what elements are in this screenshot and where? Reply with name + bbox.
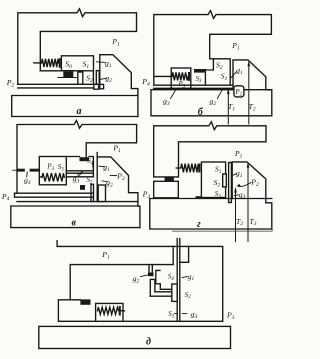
spring S (181, 164, 198, 173)
leader g1 (97, 61, 106, 64)
spring box (39, 157, 66, 185)
spring end plate (59, 58, 61, 68)
ledge line (17, 201, 138, 203)
svg-text:д: д (146, 336, 151, 347)
svg-text:г: г (197, 219, 201, 230)
ledge line (40, 70, 73, 72)
leader g1 (99, 165, 105, 168)
arrow T3 (247, 164, 249, 241)
svg-text:в: в (71, 218, 76, 229)
spring end plate (198, 164, 200, 173)
pin box (98, 185, 105, 202)
leader S3 (175, 313, 177, 315)
leader g1 (231, 72, 237, 78)
svg-text:а: а (77, 106, 82, 117)
leader S1 (92, 163, 93, 168)
bracket P1 body (154, 11, 272, 85)
spring S (42, 173, 64, 181)
top-left stub (56, 241, 58, 247)
spring stub (121, 310, 125, 312)
spring S (42, 59, 59, 67)
spring end plate (188, 72, 190, 81)
leader g3 (234, 194, 238, 197)
leader g2 (102, 180, 108, 183)
spring stub (176, 167, 181, 169)
contact patch (black) (194, 69, 206, 73)
leader g2 (217, 90, 222, 98)
hanging pin (149, 265, 152, 273)
leader g3 (78, 173, 82, 176)
leader g1 (233, 174, 237, 176)
bottom rod (15, 193, 93, 197)
spring S (172, 72, 188, 80)
leader P2 (110, 174, 117, 176)
bar pin left (91, 184, 94, 201)
bracket P1 body (17, 121, 137, 194)
base plate (12, 96, 138, 117)
spring housing (96, 303, 123, 321)
pin flange (dark) (148, 273, 154, 277)
piston (172, 284, 177, 301)
long divider line (96, 153, 98, 202)
rod to piston (150, 292, 172, 296)
slide block (61, 56, 93, 71)
pin right (229, 163, 232, 203)
rod (154, 85, 233, 88)
P2 box (234, 86, 244, 97)
leader g4 (26, 172, 29, 177)
rod foot (94, 84, 99, 89)
stop notch (100, 84, 104, 88)
base plate (11, 206, 140, 228)
leader g2 (101, 78, 107, 79)
contact patch lower (black) (80, 185, 85, 190)
block (201, 162, 225, 198)
leader g3 (182, 313, 187, 315)
wedge (78, 172, 83, 175)
stop body (233, 60, 272, 116)
block right edge pin (92, 71, 94, 85)
support slab (154, 181, 179, 198)
beam slot right side (180, 246, 189, 262)
leader g2 (141, 275, 149, 277)
spring S (98, 307, 119, 314)
leader arrow P2 (238, 183, 251, 187)
contact patch (black) (165, 178, 174, 182)
arrow T2 (235, 189, 237, 241)
stem (177, 239, 180, 321)
beam bottom edge (70, 246, 173, 264)
base right step (138, 206, 140, 228)
spring end plate (119, 306, 121, 316)
rod end arrow (13, 169, 17, 171)
pocket inner wall (69, 265, 71, 300)
base ghost line (172, 229, 272, 231)
rod (P2) (18, 84, 97, 88)
arrow T2 (248, 63, 250, 124)
base plate (39, 326, 231, 348)
arrow T1 (227, 91, 229, 124)
spring rod stub (39, 176, 42, 178)
stop body (100, 55, 138, 117)
stepped block (205, 59, 230, 85)
contact patch (black) (80, 299, 90, 304)
pin box on block (223, 174, 227, 187)
leader g1 (182, 276, 187, 277)
chamber outline (66, 157, 93, 177)
base plate (151, 90, 272, 116)
base plate (150, 199, 272, 230)
bracket P1 body (18, 9, 137, 85)
inner rod (66, 171, 92, 173)
leader g3 (171, 91, 176, 99)
drive rod segment 1 (dark) (17, 169, 25, 172)
contact patch (black) (63, 72, 73, 78)
piston (78, 72, 83, 84)
bracket P1 body (154, 122, 266, 177)
L-pipe (150, 279, 155, 296)
contact patch upper (black) (80, 157, 90, 161)
stop body (97, 157, 138, 206)
chamber edge (156, 270, 172, 289)
drive rod segment 2 (dark) (30, 169, 40, 172)
spring box (171, 68, 191, 89)
patch under block (black) (196, 196, 202, 199)
spring rod (34, 62, 42, 64)
pin (96, 71, 99, 85)
bracket outline (57, 246, 223, 321)
ledge under patch (58, 77, 76, 79)
spring rod (155, 75, 172, 77)
stop body (232, 162, 272, 229)
